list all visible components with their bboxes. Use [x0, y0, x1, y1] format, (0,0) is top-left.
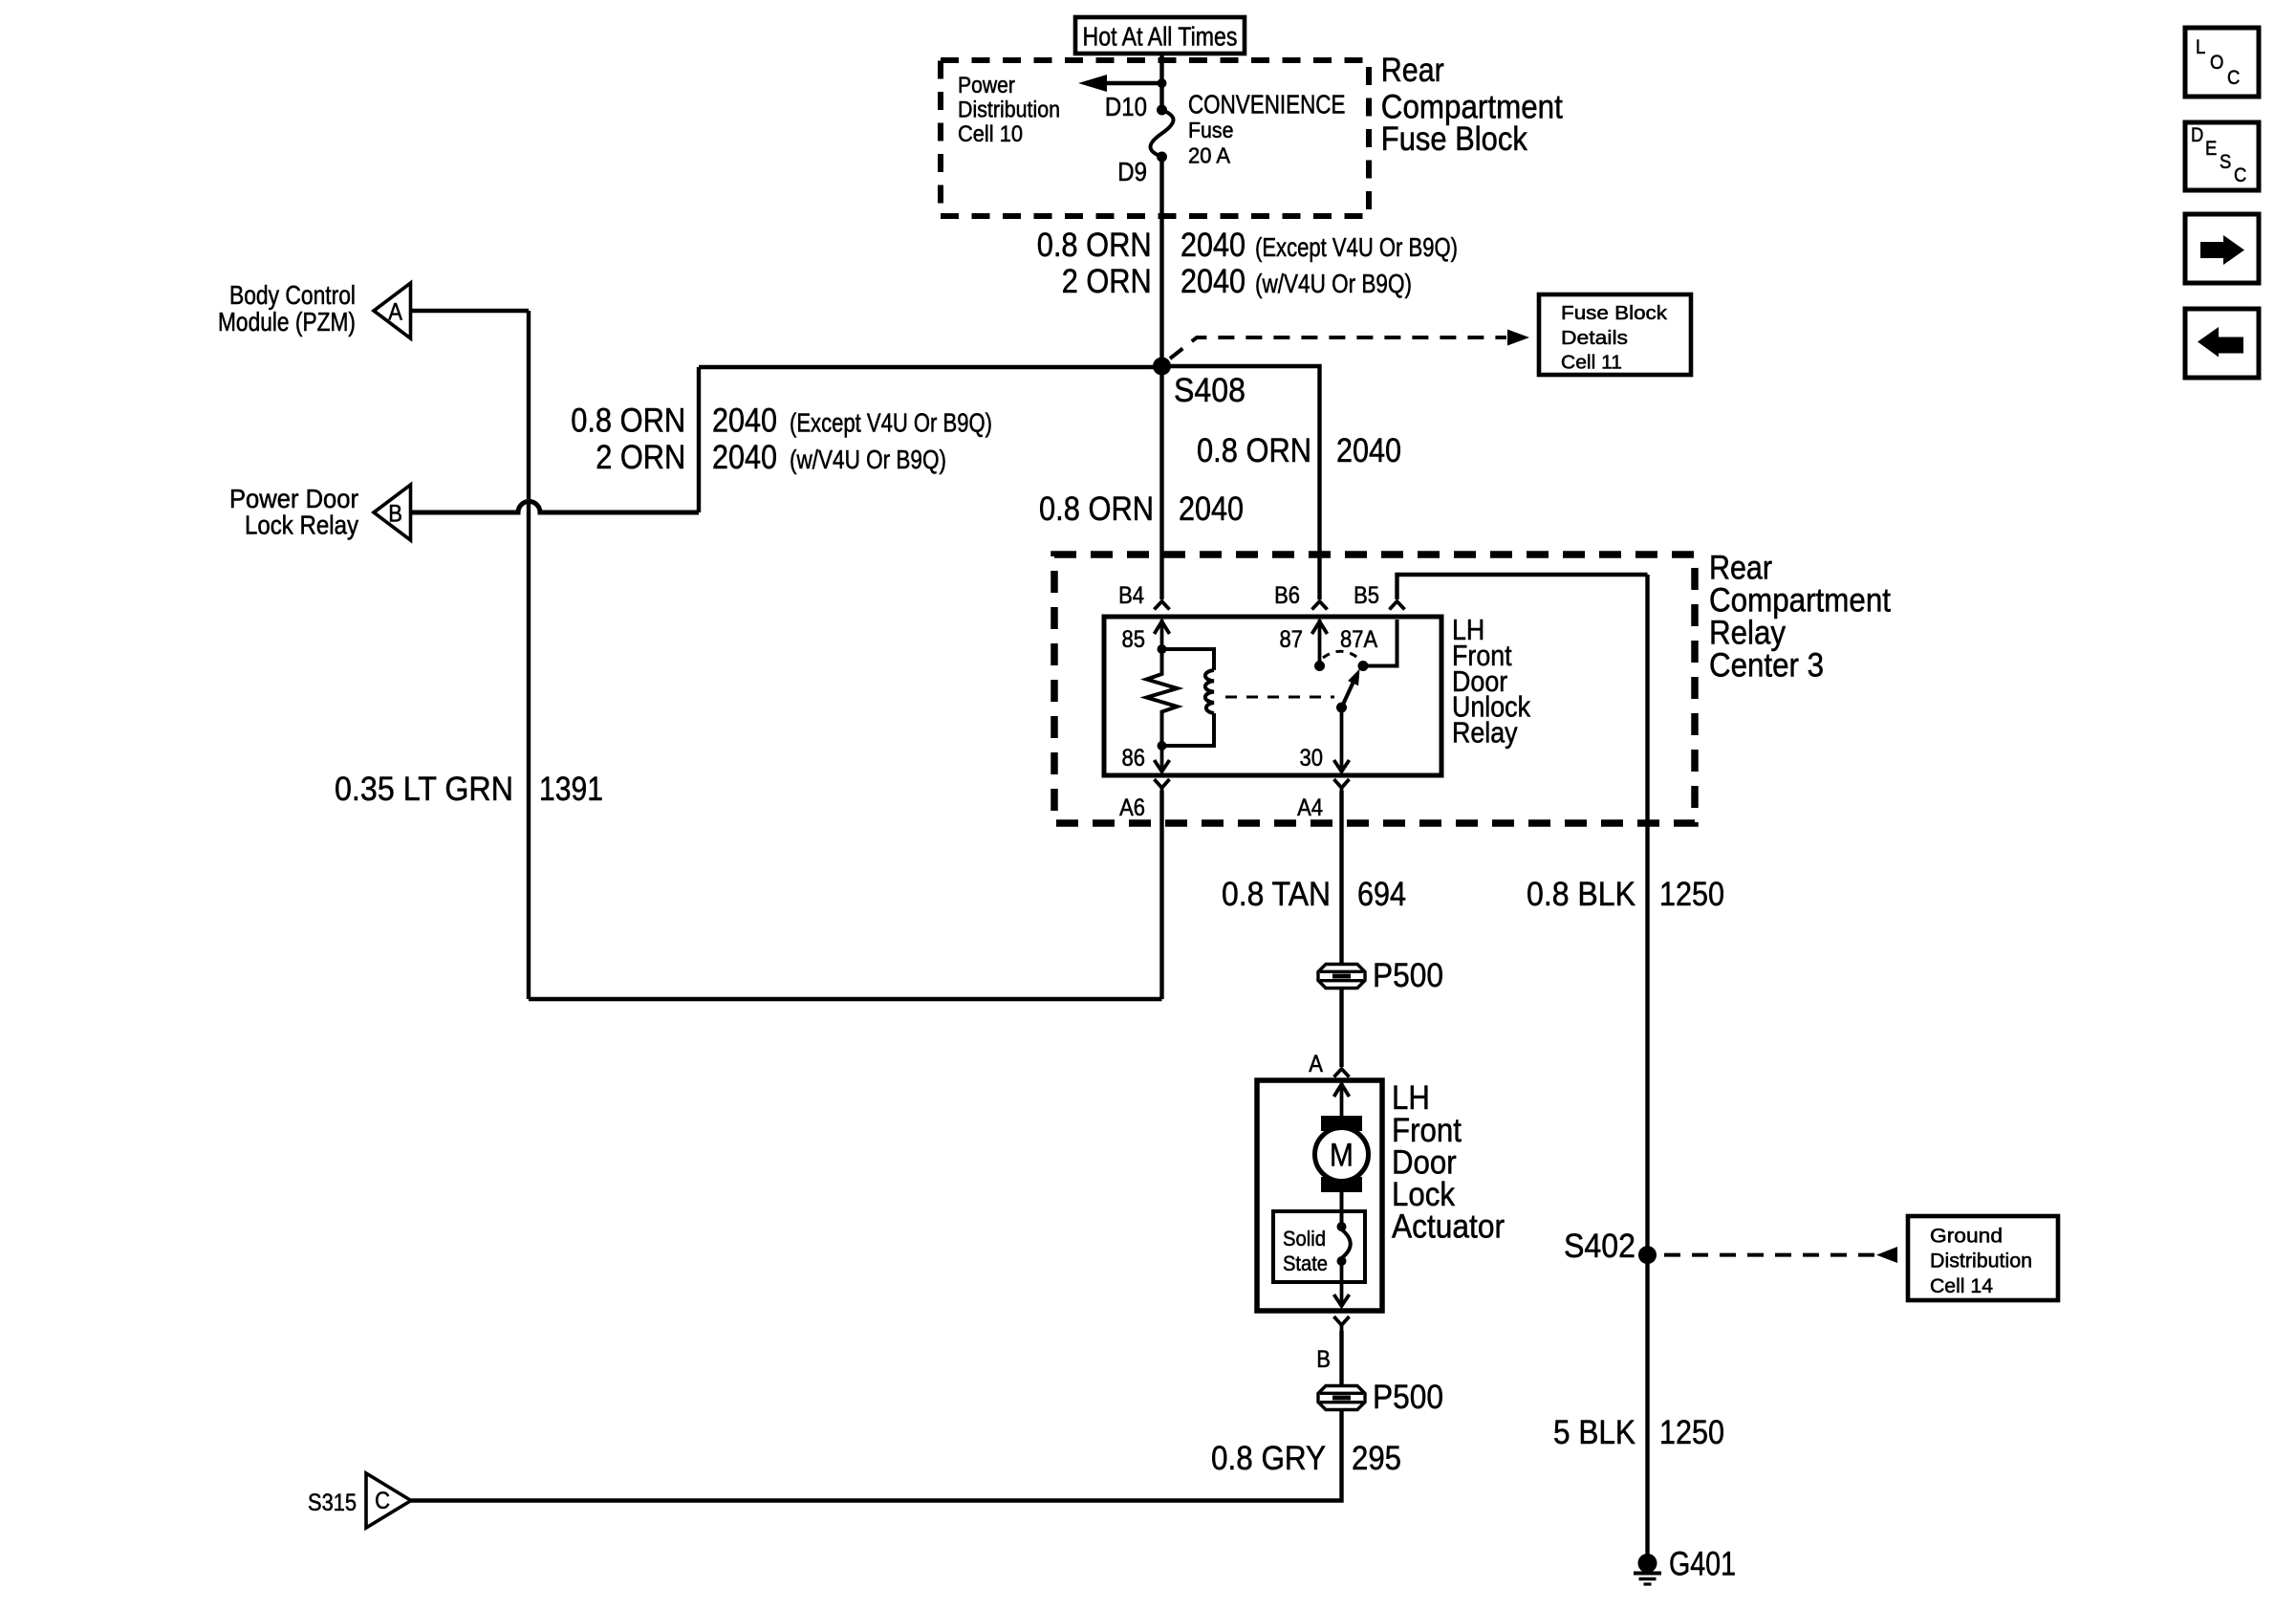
contact dot 87 [1314, 661, 1325, 671]
svg-text:B6: B6 [1274, 582, 1300, 609]
wire: P500 to actuator pin A [1339, 989, 1343, 1067]
svg-text:694: 694 [1357, 875, 1406, 913]
wire: relay pin A6 down to LT GRN horizontal [1159, 791, 1163, 999]
svg-text:Power: Power [958, 73, 1015, 98]
svg-text:A6: A6 [1119, 794, 1145, 821]
wire: S408 left branch along y=384 to riser [699, 365, 1159, 369]
svg-text:Ground: Ground [1930, 1226, 2003, 1248]
svg-text:(w/V4U Or B9Q): (w/V4U Or B9Q) [1255, 269, 1412, 298]
dashed reference line from S408 to Fuse Block Details [1170, 337, 1506, 359]
armature pivot dot [1336, 703, 1347, 713]
wire: fuse D9 output down to splice S408 [1159, 157, 1163, 361]
svg-text:2040: 2040 [1180, 226, 1245, 264]
connector triangle A to Body Control Module [374, 283, 411, 338]
relay pin 30 arrow (down) [1334, 707, 1350, 772]
Hot At All Times flag box [1075, 17, 1245, 54]
svg-text:P500: P500 [1373, 1378, 1443, 1416]
svg-text:B5: B5 [1354, 582, 1379, 609]
solid state contact dot upper [1337, 1222, 1347, 1231]
svg-text:E: E [2205, 138, 2217, 160]
svg-text:5 BLK: 5 BLK [1553, 1413, 1635, 1451]
ground symbol G401 [1634, 1554, 1661, 1584]
svg-text:0.8 ORN: 0.8 ORN [1037, 226, 1152, 264]
fuse terminal dot D9 [1157, 152, 1167, 163]
svg-text:Fuse Block: Fuse Block [1561, 302, 1668, 324]
Rear Compartment Fuse Block dashed box [941, 60, 1369, 216]
dashed mechanical link coil to armature [1225, 696, 1334, 699]
svg-text:0.8 ORN: 0.8 ORN [1197, 431, 1311, 469]
junction dot 85 side [1158, 644, 1167, 654]
svg-text:C: C [2227, 67, 2240, 89]
connector chevron at relay pin B5 [1390, 601, 1405, 610]
svg-text:M: M [1330, 1138, 1354, 1174]
solid state switch arc [1342, 1229, 1351, 1258]
svg-text:Hot At All Times: Hot At All Times [1083, 22, 1238, 52]
wire: branch to Power Door Lock Relay triangle B with hop over LT GRN wire [411, 502, 700, 513]
svg-text:State: State [1283, 1251, 1328, 1275]
splice node S408 junction dot [1153, 358, 1171, 376]
svg-text:C: C [2234, 164, 2246, 186]
svg-text:Body Control: Body Control [229, 280, 356, 310]
svg-text:30: 30 [1300, 745, 1324, 772]
wire: riser down to Power Door Lock Relay branch [697, 367, 701, 512]
svg-text:B4: B4 [1118, 582, 1144, 609]
svg-text:2040: 2040 [1179, 490, 1244, 528]
svg-text:D10: D10 [1105, 92, 1147, 121]
wire: arrow feed to Power Distribution [1107, 81, 1162, 85]
wire: GRY 295 from P500 down and left to S315 [411, 1409, 1342, 1501]
relay pin 87 arrow (up) with stationary contact [1312, 620, 1328, 666]
svg-text:G401: G401 [1669, 1545, 1736, 1583]
svg-text:B: B [388, 501, 402, 528]
inline connector P500 (lower) [1318, 1386, 1365, 1410]
connector chevron at actuator pin A [1334, 1069, 1350, 1077]
icon arrow left [2198, 327, 2243, 358]
svg-text:(Except V4U Or B9Q): (Except V4U Or B9Q) [1255, 232, 1458, 262]
svg-text:0.8 ORN: 0.8 ORN [571, 402, 685, 440]
relay armature (movable contact) with arrowhead [1342, 683, 1354, 707]
svg-text:CONVENIENCE: CONVENIENCE [1188, 89, 1345, 119]
Ground Distribution Cell 14 box [1908, 1216, 2058, 1300]
icon box DESC [2185, 122, 2259, 190]
svg-text:(Except V4U Or B9Q): (Except V4U Or B9Q) [790, 408, 992, 438]
svg-text:S408: S408 [1174, 371, 1245, 409]
splice node S402 junction dot [1638, 1246, 1657, 1264]
junction dot at arrow branch [1158, 78, 1167, 88]
svg-text:0.8 TAN: 0.8 TAN [1222, 875, 1331, 913]
wire: LT GRN 1391 vertical x=553 [527, 311, 531, 999]
svg-text:D: D [2191, 124, 2203, 146]
svg-text:Actuator: Actuator [1392, 1207, 1505, 1246]
arrowhead: from Ground Distribution (points left) [1876, 1247, 1897, 1263]
motor lower brush block [1321, 1177, 1362, 1192]
solid state contact dot lower [1337, 1256, 1347, 1266]
actuator internal arrow (down) to pin B [1334, 1261, 1350, 1307]
svg-text:P500: P500 [1373, 956, 1443, 994]
LH Front Door Lock Actuator box [1257, 1080, 1382, 1311]
svg-text:Distribution: Distribution [958, 98, 1060, 123]
svg-text:Lock Relay: Lock Relay [245, 511, 358, 540]
svg-text:20 A: 20 A [1188, 143, 1231, 168]
svg-text:Module (PZM): Module (PZM) [218, 307, 356, 337]
svg-text:Fuse: Fuse [1188, 118, 1234, 142]
connector Y at relay pin A6 [1155, 779, 1170, 794]
svg-text:2040: 2040 [712, 438, 777, 476]
wire: Body Control Module triangle A feed [411, 309, 530, 313]
svg-text:0.8 GRY: 0.8 GRY [1211, 1439, 1326, 1477]
connector Y at actuator pin B [1334, 1316, 1350, 1331]
relay coil winding [1162, 649, 1215, 746]
dashed reference line from S402 to Ground Distribution [1664, 1253, 1874, 1257]
icon box arrow left [2185, 309, 2259, 378]
svg-text:Solid: Solid [1283, 1227, 1326, 1251]
svg-text:0.8 ORN: 0.8 ORN [1039, 490, 1154, 528]
svg-text:0.8 BLK: 0.8 BLK [1527, 875, 1635, 913]
wire: LT GRN 1391 horizontal to relay pin A6 [529, 997, 1162, 1001]
svg-text:Power Door: Power Door [229, 484, 358, 513]
connector triangle B to Power Door Lock Relay [374, 485, 411, 540]
wire: TAN 694 from relay pin A4 down to connector P500 [1339, 791, 1343, 964]
wire: battery feed from Hot At All Times into fuse block [1159, 54, 1163, 110]
svg-text:Details: Details [1561, 327, 1628, 349]
wire: motor to solid state switch [1340, 1192, 1344, 1225]
relay pin 86 arrow (down) [1155, 746, 1170, 772]
svg-text:1391: 1391 [539, 770, 603, 808]
svg-text:B: B [1316, 1346, 1331, 1373]
svg-text:C: C [375, 1488, 390, 1514]
arrowhead: feed to Power Distribution (points left) [1078, 75, 1107, 92]
svg-text:2040: 2040 [1336, 431, 1401, 469]
svg-text:87: 87 [1280, 626, 1304, 653]
wire: 87A contact to relay pin B5 [1363, 620, 1397, 666]
motor upper brush block [1321, 1116, 1362, 1131]
svg-text:1250: 1250 [1659, 1413, 1724, 1451]
Rear Compartment Relay Center 3 dashed box [1054, 555, 1695, 823]
svg-text:2 ORN: 2 ORN [596, 438, 685, 476]
svg-text:S315: S315 [308, 1490, 357, 1516]
actuator internal arrow (up) [1334, 1083, 1350, 1117]
arrowhead: to Fuse Block Details box (points right) [1507, 330, 1529, 346]
svg-text:Cell 14: Cell 14 [1930, 1275, 1993, 1297]
connector Y at relay pin A4 [1334, 779, 1350, 794]
svg-text:Fuse Block: Fuse Block [1381, 120, 1527, 158]
svg-text:O: O [2210, 52, 2223, 74]
connector chevron at relay pin B6 [1312, 601, 1328, 610]
Solid State box [1273, 1211, 1365, 1282]
svg-text:(w/V4U Or B9Q): (w/V4U Or B9Q) [790, 445, 946, 474]
motor M circle [1315, 1128, 1369, 1182]
fuse terminal dot D10 [1157, 105, 1167, 116]
icon box LOC [2185, 28, 2259, 97]
svg-text:Cell 11: Cell 11 [1561, 352, 1622, 374]
wire: ORN 2040 from S408 down to relay pin B4 [1159, 371, 1163, 599]
dashed throw arc between 87 and 87A [1323, 651, 1359, 659]
relay pin 85 arrow (up) [1155, 620, 1170, 649]
icon box arrow right [2185, 214, 2259, 283]
svg-text:85: 85 [1122, 626, 1146, 653]
svg-text:1250: 1250 [1659, 875, 1724, 913]
contact dot 87A [1358, 661, 1369, 671]
connector triangle C from splice S315 [366, 1473, 411, 1528]
inline connector P500 (upper) [1318, 965, 1365, 989]
Fuse Block Details Cell 11 box [1539, 294, 1691, 375]
wire: S408 right branch to relay pin B6 [1164, 366, 1320, 599]
icon arrow right [2200, 235, 2244, 265]
svg-text:87A: 87A [1340, 626, 1377, 653]
CONVENIENCE fuse 20A S-curve element [1150, 110, 1173, 157]
svg-text:D9: D9 [1117, 157, 1147, 186]
svg-text:2 ORN: 2 ORN [1062, 262, 1152, 300]
svg-text:L: L [2196, 36, 2205, 58]
relay resistor zigzag [1147, 649, 1178, 746]
wire: actuator pin B to lower P500 [1339, 1331, 1343, 1386]
svg-text:Relay: Relay [1452, 717, 1518, 750]
wire: BLK 1250 from relay pin B5 up over to right vertical [1397, 575, 1648, 599]
svg-text:2040: 2040 [1180, 262, 1245, 300]
svg-text:S: S [2220, 151, 2231, 173]
svg-text:A: A [1309, 1051, 1323, 1077]
svg-text:295: 295 [1352, 1439, 1401, 1477]
LH Front Door Unlock Relay box [1104, 617, 1441, 775]
connector chevron at relay pin B4 [1155, 601, 1170, 610]
wire: BLK 1250 right vertical down to ground G401 [1645, 575, 1649, 1555]
svg-text:A: A [388, 299, 402, 326]
svg-text:Center 3: Center 3 [1709, 646, 1824, 685]
svg-text:2040: 2040 [712, 402, 777, 440]
svg-text:Cell 10: Cell 10 [958, 121, 1023, 147]
svg-text:S402: S402 [1564, 1227, 1635, 1265]
svg-text:Distribution: Distribution [1930, 1251, 2032, 1273]
svg-text:86: 86 [1122, 745, 1146, 772]
svg-text:A4: A4 [1297, 794, 1323, 821]
junction dot 86 side [1158, 741, 1167, 751]
svg-text:Rear: Rear [1381, 51, 1444, 89]
svg-text:0.35 LT GRN: 0.35 LT GRN [335, 770, 513, 808]
